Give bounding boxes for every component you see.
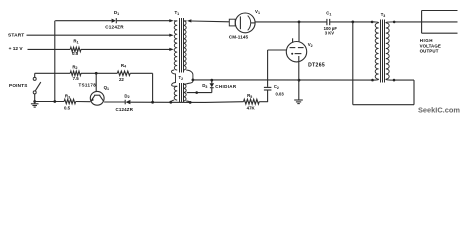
label TS1178: [78, 82, 96, 87]
lamp V1 base box: [229, 19, 235, 26]
switch POINTS arm: [35, 82, 40, 91]
wire V2 plate lead: [298, 22, 300, 42]
wire middle to D3: [211, 80, 213, 83]
arrow +12V into T1: [169, 48, 173, 51]
wire output middle prong: [422, 21, 458, 23]
tube V2 cathode: [291, 53, 301, 55]
wire T1 right bottom to node C (S-bend down): [186, 70, 193, 80]
label START: [8, 33, 24, 39]
wire T2 left bottom to rail: [171, 100, 174, 102]
node rail T2-right junction: [189, 101, 192, 104]
node T3 left top: [371, 21, 374, 24]
label R5: [247, 93, 252, 99]
diode D1: [112, 18, 117, 23]
wire +12V left segment: [28, 48, 71, 50]
transformer T1 primary winding (left): [174, 21, 177, 70]
node T3 right bottom: [393, 79, 396, 82]
diode D2: [125, 100, 130, 105]
transformer T2 core: [180, 83, 184, 102]
wire loop bottom: [353, 104, 414, 106]
wire START to T1 tap: [27, 34, 170, 36]
label R2: [72, 64, 77, 70]
svg-text:POINTS: POINTS: [9, 83, 28, 88]
label HIGH VOLTAGE OUTPUT: [420, 38, 441, 54]
node T3 left bottom: [371, 79, 374, 82]
svg-text:CHIDIAR: CHIDIAR: [215, 84, 237, 89]
label 0.5 (R1 value): [72, 51, 79, 56]
label 100 pF (C1 value): [324, 26, 338, 31]
label D3: [202, 83, 207, 89]
svg-text:START: START: [8, 33, 24, 39]
lamp V1 curved electrode: [248, 16, 251, 31]
node B (base junction dot): [95, 72, 98, 75]
svg-text:0.5: 0.5: [72, 51, 79, 56]
lamp V1 left electrode: [239, 16, 241, 29]
svg-text:+ 12 V: + 12 V: [9, 46, 24, 52]
label D2: [124, 93, 129, 99]
label R4: [121, 63, 126, 69]
resistor R3: [64, 99, 76, 103]
svg-text:VOLTAGE: VOLTAGE: [420, 43, 441, 48]
label CHIDIAR (D3 value): [215, 84, 237, 89]
transistor Q1 collector leg: [100, 95, 104, 101]
node rail T2-left junction: [169, 101, 172, 104]
arrow wire V1 into T1 right top: [187, 19, 191, 22]
transistor Q1 emitter arrow: [91, 98, 94, 101]
svg-text:47K: 47K: [247, 106, 256, 111]
resistor R2: [70, 71, 81, 75]
node rail-switch junction: [33, 100, 36, 103]
wire T1 left bottom to T2 left top (S-bend): [172, 70, 176, 86]
wire T2 right bottom to rail: [186, 101, 190, 102]
output connector bar: [421, 11, 423, 34]
svg-text:C124ZR: C124ZR: [116, 107, 134, 112]
node rail R4 junction: [151, 101, 154, 104]
label +12V: [9, 46, 24, 52]
svg-text:0.5: 0.5: [64, 106, 71, 111]
arrow into T1 top tap: [169, 19, 173, 22]
wire damper branch (top-left horizontal and vertical to ground rail): [55, 21, 170, 102]
transformer T2 left winding: [174, 86, 177, 100]
lamp V1 envelope: [235, 13, 255, 33]
lamp V1 electrode tick: [251, 22, 255, 24]
tube V2 grid cap stub: [292, 38, 294, 42]
wire feedback vertical: [352, 22, 354, 105]
label C124ZR (D2 value): [116, 107, 134, 112]
label DT265 (V2 type): [308, 62, 325, 68]
label POINTS: [9, 83, 28, 88]
wire C2 to R5 corner: [267, 90, 269, 102]
wire node C to T2 right top (S-bend): [186, 80, 193, 84]
node V2 plate junction: [298, 21, 301, 24]
label C2: [274, 84, 279, 90]
wire ground rail left (switch to R3): [35, 101, 64, 103]
wire R2 to node B: [81, 72, 117, 74]
wire V2 grid to C2 branch: [268, 50, 287, 87]
label D1: [114, 10, 119, 16]
wire base-feed (corner from switch up, across R2/R4 row): [35, 73, 70, 77]
wire T2 center tap to D3: [187, 92, 212, 94]
node rail damper junction: [53, 100, 56, 103]
switch POINTS lower contact: [33, 91, 36, 94]
capacitor C2: [264, 87, 272, 90]
wire output bottom prong: [422, 32, 458, 34]
tube V2 grid dashes: [290, 47, 304, 49]
svg-text:22: 22: [119, 77, 124, 82]
node C (T2 junction to middle wire): [192, 79, 195, 82]
label C1: [326, 11, 331, 17]
resistor R5: [244, 99, 260, 104]
wire Q1 base: [95, 73, 97, 91]
transformer T1 core: [180, 18, 184, 73]
svg-text:CM-1145: CM-1145: [229, 35, 249, 40]
transformer T3 secondary winding (right): [386, 22, 394, 80]
ground (below V2): [294, 100, 303, 104]
svg-text:C124ZR: C124ZR: [105, 24, 124, 29]
svg-text:OUTPUT: OUTPUT: [420, 49, 439, 54]
node T3 feedback junction: [351, 21, 354, 24]
wire R4 to rail (corner at x=152.6): [130, 73, 152, 102]
label V1: [255, 9, 260, 15]
label T3: [381, 12, 386, 18]
svg-text:TS1178: TS1178: [78, 82, 96, 87]
wire C1 left: [326, 21, 328, 23]
wire T3 to output: [394, 21, 421, 23]
wire Q1 to D2: [104, 101, 125, 103]
wire V2 cathode lead: [298, 56, 300, 100]
label 47K (R5 value): [247, 106, 256, 111]
svg-text:0.03: 0.03: [276, 92, 285, 97]
transistor Q1 circle: [90, 91, 104, 105]
transformer T1 secondary winding (right): [183, 21, 186, 70]
ground (left, below switch): [31, 102, 39, 108]
label Q1: [104, 85, 109, 91]
wire switch to rail: [34, 94, 36, 102]
label T1: [174, 10, 179, 16]
svg-text:DT265: DT265: [308, 62, 325, 68]
capacitor C1: [327, 19, 330, 25]
wire R5 to C2 corner: [259, 101, 267, 103]
label R1: [73, 39, 78, 45]
wire +12V right segment: [81, 48, 170, 50]
label 3 KV (C1 value): [325, 31, 335, 36]
transistor Q1 base bar: [94, 94, 100, 96]
wire loop right vertical: [413, 80, 415, 105]
label 22 (R4 value): [119, 77, 124, 82]
transformer T3 primary winding (left): [372, 22, 379, 80]
wire T3 right bottom to loop: [394, 79, 414, 81]
label CM-1145 (V1 value): [229, 35, 249, 40]
label 0.03 (C2 value): [276, 92, 285, 97]
arrow START into T1: [169, 34, 173, 37]
transformer T3 core: [381, 20, 385, 83]
label 0.5 (R3 value): [64, 106, 71, 111]
svg-text:3 KV: 3 KV: [325, 31, 335, 36]
svg-text:7.5: 7.5: [73, 76, 80, 81]
watermark SeekIC.com: [418, 106, 460, 115]
resistor R4: [117, 71, 130, 75]
node T2 tap dot: [195, 91, 198, 94]
label R3: [65, 93, 70, 99]
transistor Q1 emitter leg: [91, 95, 95, 101]
resistor R1: [70, 47, 81, 51]
label 7.5 (R2 value): [73, 76, 80, 81]
tube V2 envelope: [286, 42, 306, 62]
node T3 right top: [393, 21, 396, 24]
wire middle cathode bus (node C to T3 left bottom): [193, 79, 373, 81]
transformer T2 right winding: [183, 84, 186, 101]
label C124ZR (D1 value): [105, 24, 124, 29]
svg-text:SeekIC.com: SeekIC.com: [418, 106, 460, 115]
wire T1 top to V1: [191, 20, 229, 23]
node V2 cathode on middle wire: [298, 79, 301, 82]
wire D2 to T2 area rail: [130, 101, 243, 104]
label T2: [179, 75, 184, 81]
wire V1 to C1: [255, 21, 327, 23]
node D3 tap on middle wire: [210, 79, 213, 82]
wire output top prong: [422, 10, 458, 12]
switch POINTS upper contact: [33, 77, 36, 80]
wire R3 to Q1: [76, 101, 91, 103]
diode D3: [210, 83, 215, 92]
wire C1 to T3: [330, 21, 376, 23]
label V2: [308, 42, 313, 48]
